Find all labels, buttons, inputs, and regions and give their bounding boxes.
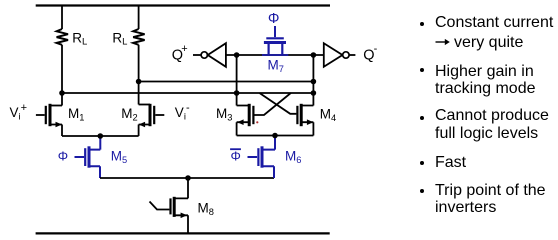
resistor R_L (right) bbox=[133, 29, 144, 45]
svg-text:Vi-: Vi- bbox=[175, 102, 190, 123]
svg-text:M5: M5 bbox=[111, 149, 127, 166]
svg-text:Q+: Q+ bbox=[172, 43, 188, 63]
bullet list bbox=[420, 22, 424, 26]
svg-text:Φ: Φ bbox=[268, 11, 280, 27]
junction node A at left inverter input / M7 bbox=[234, 52, 240, 58]
svg-text:M2: M2 bbox=[121, 106, 137, 123]
transistor M4 bbox=[297, 104, 313, 136]
wire node B horizontal rail bbox=[139, 81, 314, 83]
svg-text:RL: RL bbox=[72, 30, 87, 47]
wire ground bottom rail bbox=[36, 232, 330, 234]
svg-text:Φ: Φ bbox=[58, 149, 68, 164]
transistor M5 (clock) bbox=[75, 136, 101, 178]
junction node A rail / M3 drain bbox=[234, 90, 240, 96]
wire node A to M3 drain vertical bbox=[237, 55, 250, 106]
wire M5/M6 source to M8 bbox=[100, 177, 274, 179]
svg-text:M8: M8 bbox=[198, 200, 214, 217]
svg-text:Vi+: Vi+ bbox=[10, 102, 28, 123]
svg-text:M6: M6 bbox=[285, 149, 301, 166]
svg-text:M1: M1 bbox=[68, 106, 84, 123]
junction node A at R_L1 / M1 drain bbox=[59, 90, 65, 96]
wire column 1 from rail to resistor bbox=[61, 6, 63, 30]
transistor M1 bbox=[36, 104, 62, 136]
wire column 2 from rail to resistor bbox=[138, 6, 140, 30]
transistor M6 (clock bar) bbox=[248, 136, 276, 179]
junction node B rail end bbox=[311, 79, 317, 85]
wire cross-couple node A to M4 gate bbox=[260, 93, 297, 114]
svg-text:M4: M4 bbox=[320, 106, 336, 123]
junction node B at right inverter input / M7 bbox=[311, 52, 317, 58]
svg-text:Q-: Q- bbox=[363, 43, 377, 63]
transistor M8 (bias) bbox=[150, 178, 189, 233]
junction M3 gate wire / node B bbox=[311, 90, 317, 96]
wire VDD top rail bbox=[36, 4, 330, 6]
resistor R_L (left) bbox=[57, 29, 68, 45]
wire M3-M4 common source bbox=[237, 135, 314, 137]
svg-text:RL: RL bbox=[112, 30, 127, 47]
transistor M2 bbox=[139, 104, 165, 136]
wire node B to M4 drain vertical bbox=[301, 55, 313, 106]
svg-text:M7: M7 bbox=[268, 58, 284, 75]
wire column 1 resistor to M1 drain bbox=[61, 45, 63, 106]
wire inverter/equalizer top wire bbox=[226, 54, 324, 56]
junction tail wire / M8 drain bbox=[185, 175, 191, 181]
transistor M7 (equalizer) bbox=[262, 26, 288, 55]
inverter (right, output Q-) bbox=[324, 43, 356, 67]
svg-text:Φ: Φ bbox=[231, 148, 241, 163]
svg-text:M3: M3 bbox=[216, 106, 232, 123]
inverter (left, output Q+) bbox=[193, 43, 226, 67]
junction node B at R_L2 / M2 drain bbox=[136, 79, 142, 85]
transistor M3 bbox=[237, 104, 254, 136]
junction M1-M2 sources / M5 drain bbox=[98, 133, 104, 139]
overline of phi-bar bbox=[230, 148, 241, 150]
wire node A horizontal rail bbox=[62, 92, 313, 94]
wire column 2 resistor to M2 drain bbox=[138, 45, 140, 105]
wire cross-couple M3 gate to node B bbox=[255, 93, 291, 115]
junction M3-M4 sources / M6 drain bbox=[272, 133, 278, 139]
stray red mark bbox=[256, 121, 258, 123]
wire M1-M2 common source bbox=[62, 135, 139, 137]
